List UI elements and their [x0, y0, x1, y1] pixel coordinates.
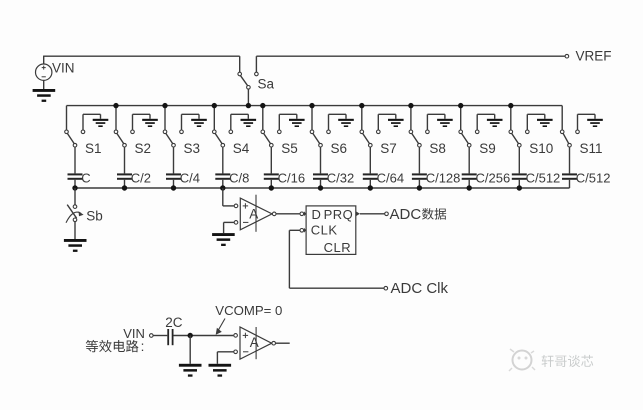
label VREF	[576, 49, 612, 64]
svg-text:VIN: VIN	[123, 326, 145, 341]
svg-text:S4: S4	[233, 141, 250, 156]
wire top bus drop to S9	[458, 103, 463, 130]
watermark text	[542, 355, 594, 367]
node bottom bus junction at C/64 (S7)	[368, 185, 373, 190]
wire VREF line	[256, 56, 565, 72]
svg-text:VREF: VREF	[576, 49, 612, 64]
svg-text:S8: S8	[429, 141, 446, 156]
ground (U3 minus input)	[209, 364, 232, 377]
label D	[312, 207, 321, 222]
switch S7	[360, 130, 397, 173]
svg-text:S3: S3	[184, 141, 201, 156]
switch S6	[310, 130, 347, 173]
node bottom bus junction at C/16 (S5)	[269, 185, 274, 190]
svg-text:C/128: C/128	[426, 170, 461, 185]
switch S8	[409, 130, 446, 173]
ground (S4 throw)	[231, 114, 256, 130]
node bottom bus junction at C/512 (S10)	[517, 185, 522, 190]
svg-text:C/4: C/4	[180, 170, 200, 185]
wire junction to ground	[189, 336, 191, 364]
wire VIN to ground	[43, 80, 45, 89]
wire top bus drop to S3	[162, 103, 167, 130]
node D input circle	[300, 211, 306, 216]
ground (S1 throw)	[83, 114, 108, 130]
label CLK	[311, 223, 338, 238]
svg-text:S1: S1	[85, 141, 102, 156]
svg-text:ADC Clk: ADC Clk	[391, 280, 449, 297]
svg-text:S10: S10	[529, 141, 553, 156]
ground (VIN source)	[33, 89, 56, 102]
wire top bus drop to S1	[66, 106, 68, 130]
node bottom bus junction at C/128 (S8)	[417, 185, 422, 190]
svg-text:C: C	[81, 170, 90, 185]
svg-text:ADC: ADC	[390, 206, 422, 223]
wire minus input to ground (equivalent)	[217, 352, 233, 364]
label equivalent circuit	[86, 339, 145, 354]
node bottom bus junction at C/2 (S2)	[122, 185, 127, 190]
ground (S3 throw)	[182, 114, 207, 130]
label ADC Clk	[391, 280, 449, 297]
switch Sb	[66, 205, 103, 239]
ground (S5 throw)	[279, 114, 304, 130]
svg-text:CLK: CLK	[311, 223, 338, 238]
svg-text:C/8: C/8	[229, 170, 249, 185]
wire top bus drop to S10	[508, 103, 513, 130]
capacitor C/512 (S10)	[512, 170, 561, 188]
node ADC Clk terminal	[384, 286, 388, 290]
svg-text:S2: S2	[135, 141, 152, 156]
op-amp U3 comparator A (equivalent)	[234, 327, 276, 359]
ground (S2 throw)	[133, 114, 158, 130]
wire top bus drop to S2	[113, 103, 118, 130]
capacitor C/2 (S2)	[117, 170, 151, 188]
svg-text:C/512: C/512	[526, 170, 561, 185]
capacitor C/256 (S9)	[462, 170, 511, 188]
wire top bus drop to S4	[212, 103, 217, 130]
wire top bus drop to S6	[309, 103, 314, 130]
wire ADC clock to CLK input	[289, 230, 383, 288]
ground (S9 throw)	[477, 114, 502, 130]
wire VIN to switch Sa left throw	[43, 56, 240, 72]
svg-text:C/16: C/16	[278, 170, 305, 185]
node junction under 2C	[188, 333, 193, 338]
switch S2	[114, 130, 151, 173]
svg-text:C/512: C/512	[576, 170, 611, 185]
ground (U1 minus input)	[212, 233, 235, 246]
node VREF terminal	[565, 54, 569, 58]
wire comparator output stub	[276, 342, 290, 344]
node bottom bus junction at C (S1)	[72, 185, 77, 190]
label PR Q	[324, 207, 354, 222]
capacitor C (S1)	[68, 170, 91, 188]
node VIN terminal (equivalent)	[150, 334, 154, 338]
svg-text:CLR: CLR	[324, 240, 352, 255]
node ADC data terminal	[385, 212, 389, 216]
switch S3	[163, 130, 200, 173]
svg-text:VCOMP= 0: VCOMP= 0	[215, 303, 282, 318]
capacitor C/4 (S3)	[166, 170, 200, 188]
op-amp U1 comparator A	[234, 195, 276, 232]
label ADC data	[390, 206, 447, 223]
wire bottom bus	[75, 187, 570, 189]
node bottom bus junction at C/8 (S4)	[220, 185, 225, 190]
svg-text:D: D	[312, 207, 321, 222]
node bottom bus junction at C/4 (S3)	[171, 185, 176, 190]
svg-text:A: A	[249, 206, 258, 221]
switch S1	[65, 130, 102, 173]
wire top bus drop to S7	[359, 103, 364, 130]
svg-text::: :	[141, 339, 145, 354]
svg-text:C/32: C/32	[327, 170, 354, 185]
ground (S6 throw)	[329, 114, 354, 130]
wire bottom bus to Sb	[74, 188, 76, 205]
switch S11	[560, 130, 602, 173]
label VIN (equivalent)	[123, 326, 145, 341]
node bottom bus junction at C/256 (S9)	[467, 185, 472, 190]
svg-text:S11: S11	[580, 141, 603, 156]
arrow VCOMP to wire	[216, 319, 225, 335]
svg-text:C/2: C/2	[131, 170, 151, 185]
ground (S8 throw)	[427, 114, 452, 130]
label VCOMP = 0	[215, 303, 282, 318]
svg-text:S5: S5	[281, 141, 298, 156]
capacitor C/16 (S5)	[264, 170, 305, 188]
svg-text:C/64: C/64	[377, 170, 404, 185]
svg-text:S6: S6	[331, 141, 348, 156]
ground (equivalent input)	[179, 364, 202, 377]
svg-text:Sb: Sb	[86, 209, 103, 224]
wire VIN terminal to capacitor 2C	[153, 335, 167, 337]
ground (S7 throw)	[378, 114, 403, 130]
switch S10	[509, 130, 553, 173]
ground (S11 throw)	[578, 114, 603, 130]
node bottom bus junction at C/32 (S6)	[318, 185, 323, 190]
svg-text:S9: S9	[479, 141, 496, 156]
label CLR	[324, 240, 352, 255]
wire bottom bus tap to comparator plus input	[223, 188, 234, 206]
capacitor C/32 (S6)	[313, 170, 354, 188]
wire comparator output to D input	[276, 213, 300, 215]
svg-text:2C: 2C	[165, 315, 183, 330]
ground (S10 throw)	[527, 114, 552, 130]
capacitor C/8 (S4)	[215, 170, 249, 188]
svg-text:Sa: Sa	[258, 77, 275, 92]
wire top bus drop to S8	[408, 103, 413, 130]
svg-text:C/256: C/256	[476, 170, 511, 185]
wire top bus	[67, 105, 563, 107]
capacitor C/512 (S11)	[562, 170, 611, 188]
wire 2C to comparator plus input	[173, 335, 233, 337]
node Sa junction on top bus	[246, 103, 251, 108]
ground (Sb)	[64, 239, 87, 252]
wire top bus drop to S5	[260, 103, 265, 130]
switch Sa	[238, 72, 275, 105]
svg-text:A: A	[250, 335, 259, 350]
capacitor C/64 (S7)	[363, 170, 404, 188]
switch S5	[261, 130, 298, 173]
svg-text:PRQ: PRQ	[324, 207, 354, 222]
voltage source VIN	[36, 61, 75, 81]
switch S9	[459, 130, 496, 173]
svg-text:VIN: VIN	[52, 61, 75, 76]
svg-text:S7: S7	[380, 141, 397, 156]
capacitor 2C	[165, 315, 183, 345]
watermark logo	[509, 349, 535, 371]
switch S4	[213, 130, 250, 173]
wire Q output to ADC data terminal	[356, 211, 385, 216]
capacitor C/128 (S8)	[412, 170, 461, 188]
flip-flop U2 box	[306, 206, 356, 255]
wire comparator minus input to ground	[224, 222, 234, 233]
node CLK input circle	[300, 228, 306, 233]
wire top bus drop to S11	[561, 106, 563, 130]
